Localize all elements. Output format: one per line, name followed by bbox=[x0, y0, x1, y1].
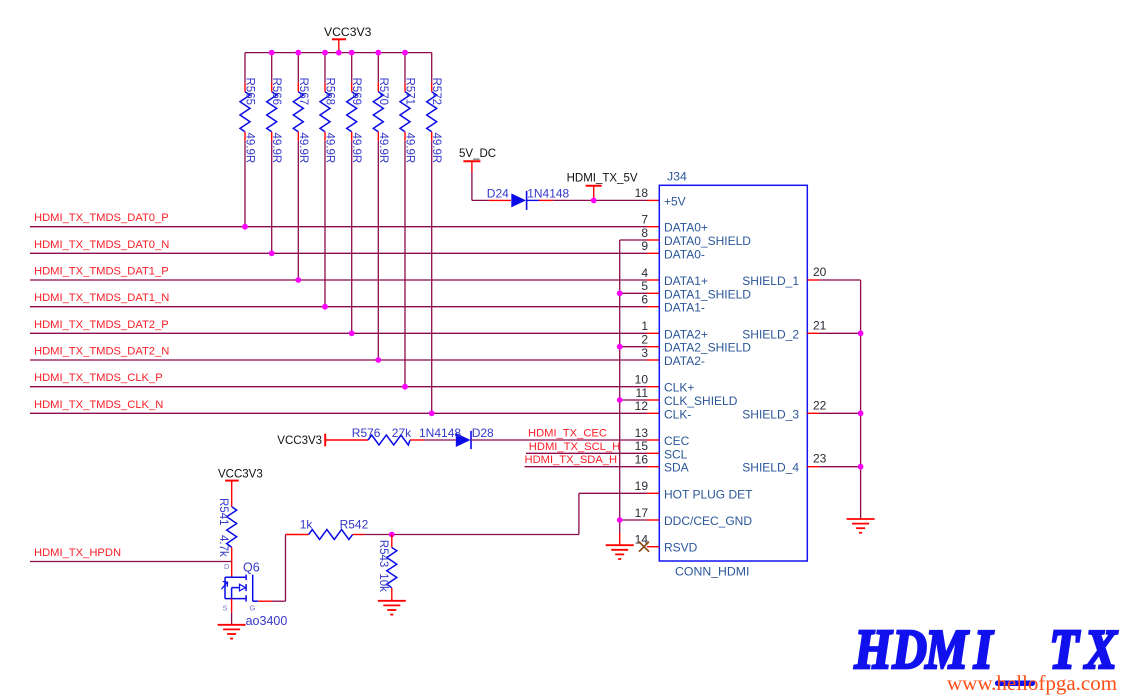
pin 3 DATA2- bbox=[641, 346, 705, 368]
net label HDMI_TX_TMDS_DAT0_P bbox=[30, 212, 659, 229]
svg-text:www.hellofpga.com: www.hellofpga.com bbox=[947, 671, 1117, 695]
power HDMI_TX_5V bbox=[567, 173, 638, 204]
wire Q6 gate to R542 bbox=[258, 535, 285, 602]
wire bus VCC3V3 rail bbox=[245, 52, 432, 54]
svg-text:DATA0+: DATA0+ bbox=[664, 221, 708, 235]
power VCC3V3 (top) bbox=[324, 25, 372, 53]
svg-text:9: 9 bbox=[641, 239, 648, 253]
svg-text:HDMI_TX_TMDS_DAT0_P: HDMI_TX_TMDS_DAT0_P bbox=[34, 212, 169, 224]
pin 10 CLK+ bbox=[635, 373, 695, 395]
ground (DDC/CEC) bbox=[606, 544, 634, 546]
svg-text:49.9R: 49.9R bbox=[350, 133, 362, 164]
svg-text:H: H bbox=[854, 620, 893, 681]
svg-text:HDMI_TX_TMDS_DAT1_P: HDMI_TX_TMDS_DAT1_P bbox=[34, 266, 169, 278]
junction dots on VCC bus bbox=[269, 50, 408, 56]
ground (shield rail) bbox=[847, 518, 875, 520]
svg-text:CEC: CEC bbox=[664, 434, 690, 448]
svg-text:SHIELD_3: SHIELD_3 bbox=[742, 407, 799, 421]
pin 1 DATA2+ bbox=[641, 319, 708, 341]
svg-text:6: 6 bbox=[641, 293, 648, 307]
wire D24 to pin 18 bbox=[539, 199, 659, 201]
svg-text:15: 15 bbox=[635, 439, 649, 453]
wire Q6 source to ground bbox=[231, 599, 233, 625]
svg-text:HDMI_TX_TMDS_DAT0_N: HDMI_TX_TMDS_DAT0_N bbox=[34, 239, 169, 251]
svg-text:ao3400: ao3400 bbox=[246, 614, 288, 628]
pin 6 DATA1- bbox=[641, 293, 705, 315]
power VCC3V3 (CEC pullup) bbox=[277, 434, 325, 448]
svg-text:R565: R565 bbox=[244, 78, 256, 106]
svg-text:16: 16 bbox=[635, 453, 649, 467]
svg-text:HDMI_TX_5V: HDMI_TX_5V bbox=[567, 173, 638, 185]
resistor R571 49.9R bbox=[400, 53, 416, 387]
svg-text:49.9R: 49.9R bbox=[324, 133, 336, 164]
logo underline fragment bbox=[995, 681, 1035, 687]
resistor R565 49.9R bbox=[240, 53, 256, 227]
svg-text:J34: J34 bbox=[667, 169, 687, 183]
wire 5V_DC to D24 bbox=[472, 172, 511, 200]
power VCC3V3 (HPD pullup) bbox=[218, 469, 263, 507]
svg-text:12: 12 bbox=[635, 399, 649, 413]
net label HDMI_TX_TMDS_DAT0_N bbox=[30, 239, 659, 256]
svg-text:VCC3V3: VCC3V3 bbox=[324, 25, 372, 39]
svg-text:R571: R571 bbox=[404, 78, 416, 106]
net label HDMI_TX_HPDN bbox=[30, 547, 232, 561]
net label HDMI_TX_SDA_H wire to pin 16 bbox=[525, 454, 660, 467]
resistor R566 49.9R bbox=[267, 53, 283, 254]
svg-text:CLK-: CLK- bbox=[664, 407, 691, 421]
svg-text:R576: R576 bbox=[352, 426, 381, 440]
svg-text:20: 20 bbox=[813, 265, 827, 279]
svg-text:DATA1-: DATA1- bbox=[664, 301, 705, 315]
wire DATA shields to ground rail bbox=[617, 240, 660, 545]
transistor Q6 ao3400 NMOS bbox=[222, 561, 288, 629]
svg-text:7: 7 bbox=[641, 213, 648, 227]
pin 8 DATA0_SHIELD bbox=[641, 226, 751, 248]
svg-text:22: 22 bbox=[813, 398, 827, 412]
pin 14 RSVD bbox=[635, 533, 698, 555]
svg-text:R572: R572 bbox=[430, 78, 442, 106]
net label HDMI_TX_TMDS_DAT1_P bbox=[30, 266, 659, 283]
svg-text:13: 13 bbox=[635, 426, 649, 440]
pin 2 DATA2_SHIELD bbox=[641, 333, 751, 355]
pin 9 DATA0- bbox=[641, 239, 705, 261]
svg-text:D: D bbox=[892, 620, 927, 681]
pin 17 DDC/CEC_GND bbox=[635, 506, 753, 528]
svg-text:49.9R: 49.9R bbox=[270, 133, 282, 164]
pin 5 DATA1_SHIELD bbox=[641, 279, 751, 301]
svg-text:DATA0_SHIELD: DATA0_SHIELD bbox=[664, 234, 751, 248]
pin 21 SHIELD_2 bbox=[742, 318, 860, 341]
svg-text:R568: R568 bbox=[324, 78, 336, 106]
no-connect X pin 14 bbox=[639, 542, 659, 552]
svg-text:3: 3 bbox=[641, 346, 648, 360]
net label HDMI_TX_TMDS_CLK_P bbox=[30, 372, 659, 389]
svg-text:1N4148: 1N4148 bbox=[527, 187, 569, 201]
pin 19 HOT PLUG DET bbox=[635, 479, 753, 501]
svg-text:R542: R542 bbox=[340, 518, 369, 532]
svg-text:HDMI_TX_SDA_H: HDMI_TX_SDA_H bbox=[525, 454, 618, 466]
svg-text:49.9R: 49.9R bbox=[430, 133, 442, 164]
svg-text:8: 8 bbox=[641, 226, 648, 240]
ground (Q6 source) bbox=[218, 624, 246, 626]
pin 7 DATA0+ bbox=[641, 213, 708, 235]
svg-text:SHIELD_4: SHIELD_4 bbox=[742, 461, 799, 475]
svg-text:DATA1_SHIELD: DATA1_SHIELD bbox=[664, 287, 751, 301]
wire right shield rail bbox=[858, 280, 864, 519]
svg-text:SHIELD_1: SHIELD_1 bbox=[742, 274, 799, 288]
pin 12 CLK- bbox=[635, 399, 692, 421]
svg-text:49.9R: 49.9R bbox=[244, 133, 256, 164]
svg-text:18: 18 bbox=[635, 186, 649, 200]
logo HDMI TX bbox=[854, 620, 1118, 681]
resistor R568 49.9R bbox=[320, 53, 336, 307]
svg-text:+5V: +5V bbox=[664, 194, 686, 208]
svg-text:HDMI_TX_TMDS_DAT2_P: HDMI_TX_TMDS_DAT2_P bbox=[34, 319, 169, 331]
svg-text:1k: 1k bbox=[300, 518, 314, 532]
svg-text:11: 11 bbox=[636, 386, 649, 400]
svg-text:S: S bbox=[223, 604, 228, 613]
svg-text:DATA2-: DATA2- bbox=[664, 354, 705, 368]
connector J34 CONN_HDMI box bbox=[659, 169, 807, 578]
svg-text:DATA0-: DATA0- bbox=[664, 247, 705, 261]
pin 4 DATA1+ bbox=[641, 266, 708, 288]
ground (R543) bbox=[378, 600, 406, 602]
resistor R541 4.7k bbox=[217, 498, 237, 577]
svg-text:VCC3V3: VCC3V3 bbox=[218, 469, 263, 481]
svg-text:HDMI_TX_HPDN: HDMI_TX_HPDN bbox=[34, 547, 121, 559]
svg-text:HDMI_TX_SCL_H: HDMI_TX_SCL_H bbox=[529, 441, 620, 453]
svg-text:D: D bbox=[224, 562, 230, 571]
pin 15 SCL bbox=[635, 439, 688, 461]
watermark www.hellofpga.com bbox=[947, 671, 1117, 695]
svg-text:CONN_HDMI: CONN_HDMI bbox=[675, 564, 749, 578]
svg-text:R567: R567 bbox=[297, 78, 309, 106]
svg-text:SDA: SDA bbox=[664, 461, 689, 475]
svg-text:G: G bbox=[250, 604, 256, 613]
svg-text:HDMI_TX_TMDS_DAT2_N: HDMI_TX_TMDS_DAT2_N bbox=[34, 346, 169, 358]
resistor R567 49.9R bbox=[293, 53, 309, 280]
svg-text:R570: R570 bbox=[377, 78, 389, 106]
power 5V_DC bbox=[459, 148, 496, 172]
pin 16 SDA bbox=[635, 453, 689, 475]
resistor R542 1k bbox=[286, 518, 369, 540]
resistor R543 10k bbox=[377, 535, 397, 601]
svg-text:HDMI_TX_TMDS_DAT1_N: HDMI_TX_TMDS_DAT1_N bbox=[34, 292, 169, 304]
svg-text:CLK_SHIELD: CLK_SHIELD bbox=[664, 394, 738, 408]
svg-text:HDMI_TX_CEC: HDMI_TX_CEC bbox=[528, 428, 607, 440]
pin 23 SHIELD_4 bbox=[742, 452, 860, 475]
diode D28 1N4148 bbox=[419, 426, 494, 449]
svg-text:19: 19 bbox=[635, 479, 649, 493]
svg-text:17: 17 bbox=[635, 506, 649, 520]
svg-text:R543: R543 bbox=[377, 540, 389, 568]
net label HDMI_TX_TMDS_DAT2_N bbox=[30, 346, 659, 363]
svg-text:DDC/CEC_GND: DDC/CEC_GND bbox=[664, 514, 752, 528]
svg-text:CLK+: CLK+ bbox=[664, 381, 694, 395]
net label HDMI_TX_CEC wire to pin 13 bbox=[471, 428, 659, 441]
svg-text:SHIELD_2: SHIELD_2 bbox=[742, 327, 799, 341]
resistor R569 49.9R bbox=[347, 53, 363, 334]
svg-text:21: 21 bbox=[813, 318, 827, 332]
svg-text:DATA1+: DATA1+ bbox=[664, 274, 708, 288]
svg-text:HDMI_TX_TMDS_CLK_P: HDMI_TX_TMDS_CLK_P bbox=[34, 372, 163, 384]
svg-text:5V_DC: 5V_DC bbox=[459, 148, 496, 160]
svg-text:1: 1 bbox=[641, 319, 648, 333]
net label HDMI_TX_SCL_H wire to pin 15 bbox=[526, 441, 659, 454]
svg-text:1N4148: 1N4148 bbox=[419, 426, 461, 440]
net label HDMI_TX_TMDS_DAT2_P bbox=[30, 319, 659, 336]
svg-text:49.9R: 49.9R bbox=[404, 133, 416, 164]
svg-text:D28: D28 bbox=[472, 426, 494, 440]
svg-text:2: 2 bbox=[641, 333, 648, 347]
net label HDMI_TX_TMDS_CLK_N bbox=[30, 399, 659, 416]
resistor R572 49.9R bbox=[427, 53, 443, 414]
svg-text:Q6: Q6 bbox=[243, 561, 260, 575]
wire R542 to pin 19 HOT PLUG DET bbox=[364, 493, 659, 537]
svg-text:R566: R566 bbox=[270, 78, 282, 106]
svg-text:SCL: SCL bbox=[664, 447, 688, 461]
pin 18 +5V bbox=[635, 186, 686, 208]
pin 20 SHIELD_1 bbox=[742, 265, 860, 288]
svg-text:4.7k: 4.7k bbox=[217, 535, 229, 557]
svg-text:4: 4 bbox=[641, 266, 648, 280]
svg-text:10k: 10k bbox=[377, 573, 389, 592]
svg-text:DATA2+: DATA2+ bbox=[664, 327, 708, 341]
svg-text:R569: R569 bbox=[350, 78, 362, 106]
svg-text:10: 10 bbox=[635, 373, 649, 387]
svg-text:HDMI_TX_TMDS_CLK_N: HDMI_TX_TMDS_CLK_N bbox=[34, 399, 163, 411]
svg-text:27k: 27k bbox=[392, 426, 412, 440]
pin 13 CEC bbox=[635, 426, 690, 448]
svg-text:VCC3V3: VCC3V3 bbox=[277, 435, 322, 447]
svg-text:49.9R: 49.9R bbox=[377, 133, 389, 164]
diode D24 1N4148 bbox=[487, 187, 570, 210]
svg-text:5: 5 bbox=[641, 279, 648, 293]
svg-text:HOT PLUG DET: HOT PLUG DET bbox=[664, 487, 753, 501]
resistor R576 27k bbox=[325, 426, 424, 445]
svg-text:DATA2_SHIELD: DATA2_SHIELD bbox=[664, 341, 751, 355]
pin 11 CLK_SHIELD bbox=[636, 386, 738, 408]
svg-text:23: 23 bbox=[813, 452, 827, 466]
svg-text:R541: R541 bbox=[217, 498, 229, 526]
svg-text:49.9R: 49.9R bbox=[297, 133, 309, 164]
svg-text:RSVD: RSVD bbox=[664, 541, 698, 555]
net label HDMI_TX_TMDS_DAT1_N bbox=[30, 292, 659, 309]
pin 22 SHIELD_3 bbox=[742, 398, 860, 421]
svg-text:D24: D24 bbox=[487, 187, 509, 201]
resistor R570 49.9R bbox=[373, 53, 389, 360]
